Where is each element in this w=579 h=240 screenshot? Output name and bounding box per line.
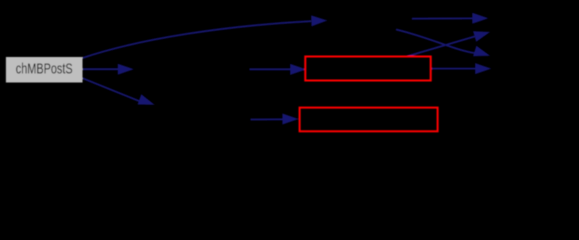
svg-text:chMBPostS: chMBPostS [16,62,73,78]
